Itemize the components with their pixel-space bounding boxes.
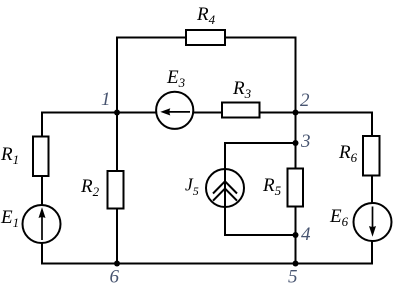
wire top horizontal (node1 riser to node2 riser) [117, 37, 296, 39]
svg-text:2: 2 [300, 90, 310, 111]
wire right branch vertical [371, 112, 373, 264]
resistor R4 [186, 4, 225, 45]
wire middle horizontal (left branch to right branch) [42, 112, 372, 114]
resistor R3 [222, 78, 260, 118]
node 1 junction dot [114, 110, 120, 116]
voltage source E6 [329, 203, 392, 241]
node 6 junction dot [114, 261, 120, 267]
svg-text:6: 6 [110, 267, 120, 288]
wire J5 loop (node 3 - left - node 4) [225, 143, 296, 235]
node 4 junction dot [293, 232, 299, 238]
svg-text:5: 5 [288, 267, 298, 288]
node 5 junction dot [293, 261, 299, 267]
voltage source E3 [156, 67, 193, 129]
resistor R1 [0, 137, 49, 177]
resistor R2 [80, 171, 124, 209]
voltage source E1 [0, 205, 61, 243]
wire vertical x=295.5 (top wire to node 5) [295, 37, 297, 264]
resistor R5 [262, 169, 303, 207]
svg-text:4: 4 [301, 224, 311, 245]
svg-text:3: 3 [300, 131, 311, 152]
wire bottom horizontal [41, 263, 373, 265]
node 2 junction dot [293, 110, 299, 116]
wire left branch vertical [41, 112, 43, 264]
node 3 junction dot [293, 140, 299, 146]
resistor R6 [338, 136, 380, 176]
svg-text:1: 1 [101, 89, 111, 110]
wire vertical x=117 (top wire to node 6) [116, 37, 118, 264]
current source J5 [185, 169, 244, 207]
